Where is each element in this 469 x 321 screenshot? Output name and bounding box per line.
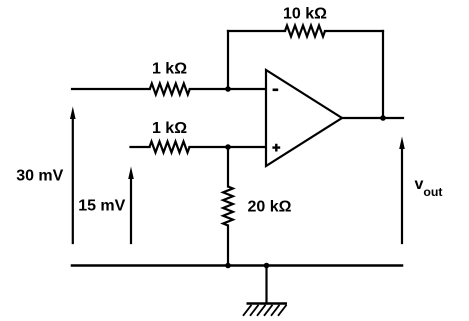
svg-text:20 kΩ: 20 kΩ	[248, 198, 292, 215]
ground symbol bar	[247, 302, 288, 305]
arrowhead: 30 mV	[70, 107, 76, 120]
op-amp U1 non-inverting pin label plus	[272, 144, 280, 152]
wire: ground stem	[265, 266, 267, 304]
arrow: 30 mV source polarity line	[72, 116, 74, 243]
svg-text:30 mV: 30 mV	[16, 168, 63, 185]
wire: feedback loop left vertical	[227, 31, 229, 89]
resistor R1 1 kOhm (inverting input)	[150, 84, 190, 95]
svg-text:1 kΩ: 1 kΩ	[152, 61, 187, 78]
wire: non-inverting input line	[131, 146, 267, 148]
resistor R3 10 kOhm (feedback)	[285, 26, 325, 37]
arrow: v_out line	[401, 147, 403, 243]
resistor R2 1 kOhm (non-inverting input)	[150, 142, 190, 153]
svg-text:15 mV: 15 mV	[78, 198, 125, 215]
wire: bottom ground rail	[72, 264, 402, 267]
resistor R4 20 kOhm (to ground rail)	[223, 187, 233, 226]
arrow: 15 mV source polarity line	[130, 177, 132, 243]
wire: op-amp output	[342, 117, 403, 119]
wire: 20 kOhm branch vertical bottom	[227, 226, 229, 266]
wire: feedback loop top horizontal	[228, 30, 383, 32]
node: 20 kOhm to rail junction dot	[225, 263, 231, 269]
wire: feedback loop right vertical to output node	[382, 31, 384, 118]
arrowhead: 15 mV	[128, 167, 134, 180]
wire: inverting input line from source to op-amp	[72, 88, 266, 90]
svg-text:10 kΩ: 10 kΩ	[283, 6, 327, 23]
svg-text:1 kΩ: 1 kΩ	[152, 120, 187, 137]
op-amp U1 inverting pin label minus	[273, 89, 279, 92]
node: output junction dot	[380, 115, 386, 121]
arrowhead: v_out	[399, 137, 405, 150]
node: inverting input junction dot	[225, 86, 231, 92]
ground symbol hatch marks	[243, 305, 287, 316]
node: ground junction dot	[264, 263, 270, 269]
op-amp U1 triangle	[266, 70, 342, 166]
svg-text:vout: vout	[415, 176, 443, 199]
node: non-inverting input junction dot	[225, 144, 231, 150]
wire: 20 kOhm branch vertical top	[227, 147, 229, 187]
